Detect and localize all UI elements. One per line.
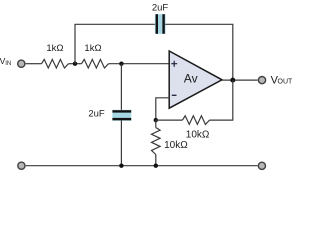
capacitor C1 right plate bbox=[162, 14, 164, 34]
wire R4 to ground rail bbox=[155, 155, 157, 166]
terminal VOUT bbox=[258, 77, 265, 84]
node VOUT label bbox=[271, 75, 293, 87]
terminal VIN bbox=[18, 60, 25, 67]
wire R1 to R2 bbox=[69, 63, 82, 65]
wire capacitor C2 to ground rail bbox=[120, 120, 122, 165]
wire feedback node to R4 bbox=[155, 120, 157, 127]
feedback node junction dot bbox=[154, 118, 158, 122]
ground rail wire bbox=[26, 165, 258, 167]
capacitor C2 bottom plate bbox=[112, 118, 131, 120]
wire VIN terminal to R1 bbox=[26, 63, 42, 65]
capacitor C2 top plate bbox=[112, 110, 131, 112]
svg-text:Av: Av bbox=[184, 71, 198, 85]
output node junction dot bbox=[230, 78, 235, 83]
op-amp minus input marker bbox=[172, 94, 177, 96]
svg-text:1kΩ: 1kΩ bbox=[46, 43, 63, 54]
svg-text:10kΩ: 10kΩ bbox=[186, 129, 210, 140]
node B junction dot bbox=[119, 62, 123, 66]
svg-text:2uF: 2uF bbox=[152, 2, 169, 13]
wire node B down to capacitor C2 bbox=[120, 64, 122, 111]
wire feedback node to R3 bbox=[156, 119, 183, 121]
wire op-amp output to VOUT terminal bbox=[222, 79, 258, 81]
wire R2 to op-amp non-inverting input bbox=[109, 63, 170, 65]
wire feedback capacitor C1 to output node bbox=[165, 24, 233, 80]
terminal ground right bbox=[258, 162, 265, 169]
node A junction dot bbox=[73, 62, 77, 66]
wire R3 to output node bbox=[210, 80, 233, 120]
node VIN label bbox=[0, 56, 11, 67]
svg-text:10kΩ: 10kΩ bbox=[164, 140, 188, 151]
op-amp U1 triangle bbox=[169, 51, 222, 108]
wire op-amp inverting input to feedback node bbox=[156, 98, 170, 120]
resistor R4 10kΩ vertical bbox=[152, 128, 161, 155]
resistor R2 1kΩ bbox=[82, 59, 109, 68]
junction dot R4 at ground rail bbox=[154, 164, 158, 168]
svg-text:IN: IN bbox=[5, 61, 11, 67]
svg-text:1kΩ: 1kΩ bbox=[84, 43, 101, 54]
capacitor C2 2uF body bbox=[112, 110, 131, 121]
svg-text:OUT: OUT bbox=[278, 79, 293, 86]
capacitor C1 left plate bbox=[156, 14, 158, 34]
capacitor C1 2uF body bbox=[155, 14, 166, 34]
resistor R1 1kΩ bbox=[42, 59, 69, 68]
op-amp plus input marker bbox=[171, 61, 177, 67]
terminal ground left bbox=[18, 162, 25, 169]
wire node A up to feedback capacitor C1 bbox=[75, 24, 156, 63]
svg-text:2uF: 2uF bbox=[88, 108, 105, 119]
junction dot capacitor C2 at ground rail bbox=[119, 164, 123, 168]
resistor R3 10kΩ horizontal bbox=[183, 116, 210, 125]
